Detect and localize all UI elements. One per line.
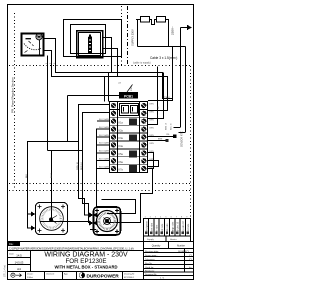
svg-text:A4: A4 [17,267,21,271]
zone boundary dash-dot vertical top-middle [127,6,129,65]
terminal tick N [179,132,186,134]
pump P2 terminal bowtie 1 [89,213,94,218]
zone boundary dotted horizontal upper [9,65,190,67]
svg-text:BRN: BRN [158,139,163,141]
wire arrow drop [180,28,182,128]
svg-text:BLK 16AWG: BLK 16AWG [99,150,111,153]
svg-text:Date:: Date: [9,252,15,255]
svg-text:K1a: K1a [119,122,124,125]
pump P2 bolts [95,209,99,213]
svg-text:Heater: Heater [170,238,177,241]
svg-text:Checked:: Checked: [46,274,55,276]
thermostat knob [36,34,42,40]
wire pcb row4 to pump2 top [97,129,110,207]
svg-text:N: N [157,107,159,110]
svg-text:BLK 16AWG: BLK 16AWG [99,165,111,168]
thermostat TH1 dial [24,34,42,55]
legend strip columns [148,219,150,237]
PCB terminal row lines [110,108,149,110]
svg-text:BRN: BRN [150,127,155,129]
wire supply bottom [138,46,186,48]
pump P2 body [94,207,121,235]
pump P1 body [36,203,68,235]
title block top edge [8,250,144,252]
svg-text:WITH METAL BOX - STANDARD: WITH METAL BOX - STANDARD [54,264,117,269]
svg-text:BRN: BRN [150,119,155,121]
legend group row [144,235,191,237]
wire supply left side [137,20,139,47]
svg-text:K5a: K5a [119,153,124,156]
pump P2 stub 3 [90,229,96,231]
wire to pcb label [68,95,122,97]
pcb leader line [127,85,133,93]
svg-text:ctrl: ctrl [118,82,121,85]
title block top line [8,241,194,243]
svg-text:BLK 16AWG: BLK 16AWG [99,158,111,161]
PCB board outline [110,102,148,173]
switch S1 [157,17,166,23]
svg-text:230V: 230V [164,97,170,100]
wire element stub upper [103,38,112,73]
thermostat TH1 box [22,34,44,56]
svg-text:RED 16: RED 16 [81,162,83,170]
svg-text:Tolerance:: Tolerance: [145,258,155,261]
indicator housing inner [79,33,101,56]
svg-text:DD/MM/YY: DD/MM/YY [178,251,189,253]
svg-text:Used for:: Used for: [145,266,154,269]
svg-text:GTL 1-4 ed: GTL 1-4 ed [4,264,7,277]
svg-text:K6a: K6a [119,161,124,164]
wire sensor 1 [148,136,176,138]
svg-text:K7a: K7a [119,169,124,172]
wire pump1 stub upper [28,213,32,215]
bottom strip cells [25,272,27,280]
svg-text:230V~: 230V~ [171,26,175,35]
PCB relay K2 [129,135,137,142]
wire label branch to pump1 left [67,96,69,142]
pump P2 hub [105,219,109,223]
PCB relay K3 [129,151,137,158]
panel inner box [71,25,106,54]
svg-text:BRN: BRN [150,143,155,145]
PCB terminal screws left [111,103,116,108]
title block divider vertical right table [143,242,145,280]
wire pcb row1 to pump2 terminal 1 [79,105,110,216]
PCB bottom right loop 1 [148,153,154,169]
svg-text:File:: File: [9,243,14,246]
svg-text:Number: Number [177,245,185,248]
pump P1 bolts [38,205,42,209]
wire pcb right r4 up [148,67,158,125]
thermostat knob stem [39,40,41,55]
svg-text:WHT: WHT [51,172,53,178]
svg-text:BLK 16AWG: BLK 16AWG [99,142,111,145]
svg-text:BRN: BRN [150,104,155,106]
pump P1 right wire to pump P2 [40,221,89,223]
svg-text:C:\DP\EP-WATER\VERSIONS\230V\E: C:\DP\EP-WATER\VERSIONS\230V\EP1230E\STA… [9,247,134,250]
svg-text:BRN: BRN [150,112,155,114]
title left col vertical [30,251,32,272]
svg-text:Supply: Supply [147,239,155,241]
supply wire entry [136,19,140,21]
file label black [8,242,20,246]
pump P1 face [40,207,64,231]
wire thermostat third down [47,56,49,151]
pump P1 hub [49,218,53,222]
pump P2 terminal bowtie 2 [89,221,94,226]
zone boundary dotted vertical right [190,66,192,218]
svg-text:SUPPLY 230V: SUPPLY 230V [131,29,135,46]
svg-text:K3a: K3a [119,137,124,140]
wire sensor 2 [148,140,168,142]
svg-text:14.5.03: 14.5.03 [15,260,24,264]
svg-text:BLK 16AWG: BLK 16AWG [99,126,111,129]
svg-text:BLU 16: BLU 16 [171,122,173,130]
svg-text:(cable to supply): (cable to supply) [133,62,151,65]
PCB bottom right loop 2 [148,161,159,167]
svg-text:Drawing-Nr.:: Drawing-Nr.: [145,273,158,276]
svg-text:BLK: BLK [26,173,28,178]
svg-text:GRN 16: GRN 16 [77,161,79,170]
right table rows [144,252,194,254]
indicator housing outer [77,31,103,58]
zone boundary dotted vertical top-middle [121,6,123,65]
PCB fuse box [120,104,139,116]
svg-text:R.Mart: R.Mart [27,276,33,279]
panel outer box [64,20,122,57]
wire element drop a [104,77,106,102]
svg-text:Replaces:: Replaces: [145,270,155,272]
wire pcb right r1 up [148,47,173,101]
PCB relay K1 [129,119,137,126]
supply arrow [181,27,189,29]
wire pcb row2 to pump2 terminal 2 [83,113,110,224]
thermostat scale arc [24,44,41,50]
svg-text:EP1230E-1: EP1230E-1 [124,277,135,279]
PCB relay K4 [129,165,137,172]
wire to right down [166,20,169,47]
fuse F1 [141,17,150,23]
PCB terminal screws right [141,103,146,108]
svg-text:Revision date:: Revision date: [145,250,159,253]
wire link dip [150,20,157,25]
wire element stub lower [103,49,118,77]
svg-text:Cable 3 x 1.5(mm²): Cable 3 x 1.5(mm²) [150,56,177,60]
thermostat tick [26,38,32,40]
terminal tick L [174,127,181,129]
legend strip box [144,219,191,237]
svg-text:BRN 16: BRN 16 [166,122,168,130]
zone boundary dotted horizontal lower 1 [9,183,190,185]
wire supply right drop [185,47,187,133]
svg-text:Drawn:: Drawn: [27,274,34,276]
svg-text:K4a: K4a [119,145,124,148]
svg-text:PCB1: PCB1 [124,94,133,98]
duropower logo [79,272,85,278]
svg-text:SENSOR NTC: SENSOR NTC [181,131,184,147]
zone boundary dotted vertical left [14,13,16,190]
PCB terminal col right divider [139,102,141,173]
pump P2 face [97,211,118,232]
wire branch pump1 top feed [48,150,83,152]
wire element drop b [108,73,110,102]
projection symbol [11,273,22,277]
svg-text:Drawing-Nr:: Drawing-Nr: [124,273,135,275]
svg-text:Rev.Nr:: Rev.Nr: [145,262,153,265]
pump P1 terminal diamonds [31,212,36,217]
svg-text:BLK 16AWG: BLK 16AWG [99,118,111,121]
zone boundary dotted horizontal lower 2 [9,190,190,192]
svg-text:DUROPOWER: DUROPOWER [87,274,120,280]
wire branch pump1 left terminals [28,142,79,229]
svg-text:Drawn appr.:: Drawn appr.: [145,254,158,257]
heating element cartridge [88,37,92,55]
wire pump P2 right upper loop [102,200,136,214]
right header row divider [168,242,170,249]
PCB terminal col left divider [117,102,119,173]
svg-text:Quantity: Quantity [152,245,161,248]
svg-text:230V: 230V [131,85,133,91]
wire thermostat upper to bus [44,39,173,99]
svg-text:BLK 16AWG: BLK 16AWG [99,134,111,137]
svg-text:14.5: 14.5 [16,254,22,258]
svg-text:PR. Panel Regular Section: PR. Panel Regular Section [11,77,15,113]
PCB left stub wires [97,120,110,122]
wire pcb right r3 up [148,73,164,119]
wire pcb to pump2 right [107,169,153,223]
svg-text:K2a: K2a [119,130,124,133]
border frame [8,5,194,280]
pcb label (black) [119,92,138,99]
left col rows [8,257,31,259]
wire thermostat lower to bus [44,51,168,111]
svg-text:App.: App. [64,273,69,276]
